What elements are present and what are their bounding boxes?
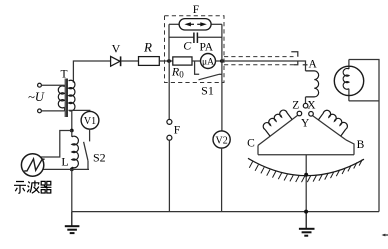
- voltmeter V1: [81, 111, 99, 129]
- 器: [41, 181, 52, 193]
- svg-text:F: F: [174, 125, 180, 137]
- terminal X (top): [303, 103, 308, 108]
- oscilloscope: [21, 154, 44, 176]
- bottom wire: [72, 211, 379, 213]
- svg-text:B: B: [357, 139, 365, 151]
- arrow bottom right: [382, 234, 388, 237]
- wire V2 to bottom: [221, 148, 223, 212]
- node J hooks: [291, 52, 307, 65]
- dashed link to J upper: [224, 56, 294, 58]
- wire R to node: [159, 60, 173, 62]
- node (junction dot right): [220, 59, 224, 63]
- wire secondary down to node: [71, 110, 73, 130]
- wire meter to right node: [216, 60, 222, 62]
- rotor frame: [349, 60, 379, 212]
- source terminal upper: [38, 83, 42, 87]
- wire left rail: [168, 24, 170, 61]
- switch S2: [84, 129, 106, 169]
- resistor R: [139, 40, 160, 66]
- node (junction dot left): [167, 59, 171, 63]
- wire right rail down to V2: [221, 61, 223, 131]
- ground right: [299, 212, 315, 236]
- svg-text:PA: PA: [199, 41, 213, 53]
- 波: [27, 181, 39, 194]
- curved surface: [248, 158, 364, 175]
- wire R0 to meter: [192, 60, 201, 62]
- wire secondary bottom to V1: [69, 110, 90, 111]
- svg-text:R: R: [143, 40, 152, 55]
- capacitor C: [169, 33, 222, 53]
- terminal Z (left): [297, 111, 302, 116]
- svg-text:S1: S1: [201, 84, 214, 98]
- wire top from transformer to diode: [73, 61, 110, 83]
- 示: [14, 182, 26, 194]
- terminal Y (right): [309, 112, 314, 117]
- wire L node down: [71, 169, 73, 211]
- voltmeter V2: [213, 131, 230, 148]
- secondary coil: [69, 80, 75, 111]
- node L bottom: [70, 168, 74, 172]
- svg-text:V2: V2: [215, 135, 227, 146]
- node on surface: [304, 173, 308, 177]
- node L top: [70, 129, 74, 133]
- label oscilloscope (hand-drawn CJK): [14, 181, 51, 194]
- terminal F upper: [167, 119, 172, 124]
- wire diode to R: [121, 60, 138, 62]
- wire scope bottom branch: [43, 168, 89, 170]
- node on bottom wire: [304, 210, 308, 214]
- switch S1: [195, 61, 222, 98]
- hatching: [249, 159, 362, 182]
- wire F branch down: [168, 61, 170, 119]
- rotor winding: [343, 60, 349, 101]
- transformer T: [58, 69, 75, 118]
- svg-text:S2: S2: [93, 151, 106, 165]
- svg-text:μA: μA: [202, 58, 214, 68]
- earth wire from base: [305, 155, 307, 212]
- winding C: [247, 109, 298, 155]
- svg-text:A: A: [309, 58, 318, 70]
- dashed link to J lower: [224, 64, 294, 66]
- wire to winding A: [222, 61, 306, 71]
- svg-text:V: V: [112, 42, 121, 56]
- dashed instrument box: [165, 16, 225, 83]
- terminal F lower: [167, 135, 172, 140]
- core: [64, 79, 66, 118]
- discharge tube F: [169, 4, 222, 30]
- svg-text:C: C: [183, 39, 192, 53]
- svg-text:Y: Y: [301, 117, 310, 129]
- winding B: [313, 109, 365, 155]
- resistor R0: [171, 57, 192, 80]
- svg-text:F: F: [193, 4, 199, 16]
- stator base line: [258, 154, 354, 156]
- wire source bottom: [41, 110, 64, 112]
- ammeter PA (uA): [201, 54, 216, 69]
- primary coil: [58, 86, 64, 108]
- svg-text:~U: ~U: [28, 90, 45, 104]
- wire F to bottom: [168, 140, 170, 211]
- winding A: [306, 58, 319, 103]
- svg-text:C: C: [247, 138, 255, 150]
- wire right rail top: [221, 24, 223, 61]
- svg-text:Z: Z: [292, 100, 299, 112]
- inductor L: [61, 131, 78, 170]
- diode V: [111, 42, 121, 67]
- wire source top: [41, 84, 64, 86]
- svg-text:X: X: [307, 100, 316, 112]
- source terminal lower: [38, 109, 42, 113]
- ground left: [65, 212, 80, 234]
- svg-text:L: L: [61, 155, 68, 169]
- svg-text:V1: V1: [84, 116, 96, 127]
- wire node to scope branch: [41, 131, 72, 158]
- rotor circle: [334, 66, 363, 95]
